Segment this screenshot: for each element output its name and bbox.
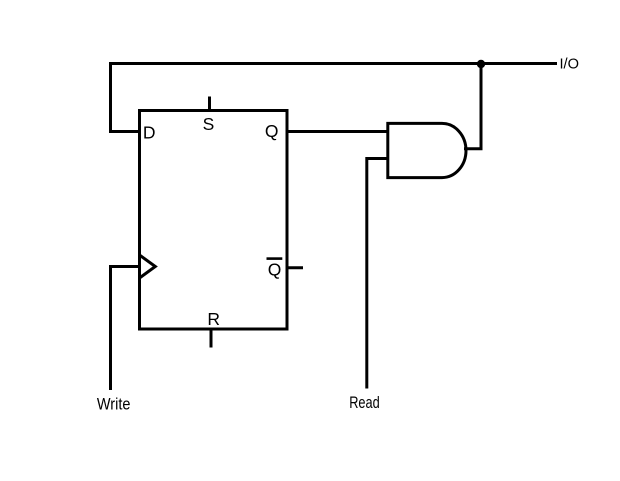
svg-text:Q: Q xyxy=(265,121,279,141)
svg-text:Q: Q xyxy=(268,259,282,279)
svg-text:S: S xyxy=(203,114,215,134)
svg-text:Read: Read xyxy=(349,394,380,412)
svg-text:Write: Write xyxy=(97,396,130,414)
svg-text:R: R xyxy=(207,309,220,329)
svg-text:D: D xyxy=(143,122,156,142)
svg-text:I/O: I/O xyxy=(560,56,580,73)
